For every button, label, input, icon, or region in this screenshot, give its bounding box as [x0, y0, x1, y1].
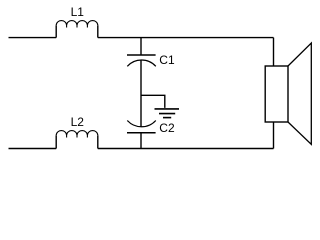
svg-text:C2: C2 — [159, 121, 175, 135]
wire middle branch center — [140, 60, 142, 127]
inductor L2 — [56, 131, 98, 149]
speaker LS1 — [265, 43, 311, 144]
wire bottom input — [9, 148, 57, 150]
inductor L1 — [56, 21, 98, 38]
svg-text:L1: L1 — [71, 5, 85, 19]
svg-text:C1: C1 — [159, 53, 175, 67]
wire middle branch bottom — [140, 133, 142, 149]
capacitor C2 — [127, 121, 156, 133]
wire ground branch — [141, 95, 165, 108]
svg-text:L2: L2 — [71, 115, 85, 129]
wire top middle — [98, 37, 274, 39]
wire speaker bottom lead — [273, 122, 275, 149]
wire bottom middle — [98, 148, 274, 150]
wire top input — [9, 37, 57, 39]
wire speaker top lead — [273, 38, 275, 66]
ground — [155, 109, 180, 118]
capacitor C1 — [127, 55, 156, 66]
wire middle branch top — [140, 38, 142, 55]
